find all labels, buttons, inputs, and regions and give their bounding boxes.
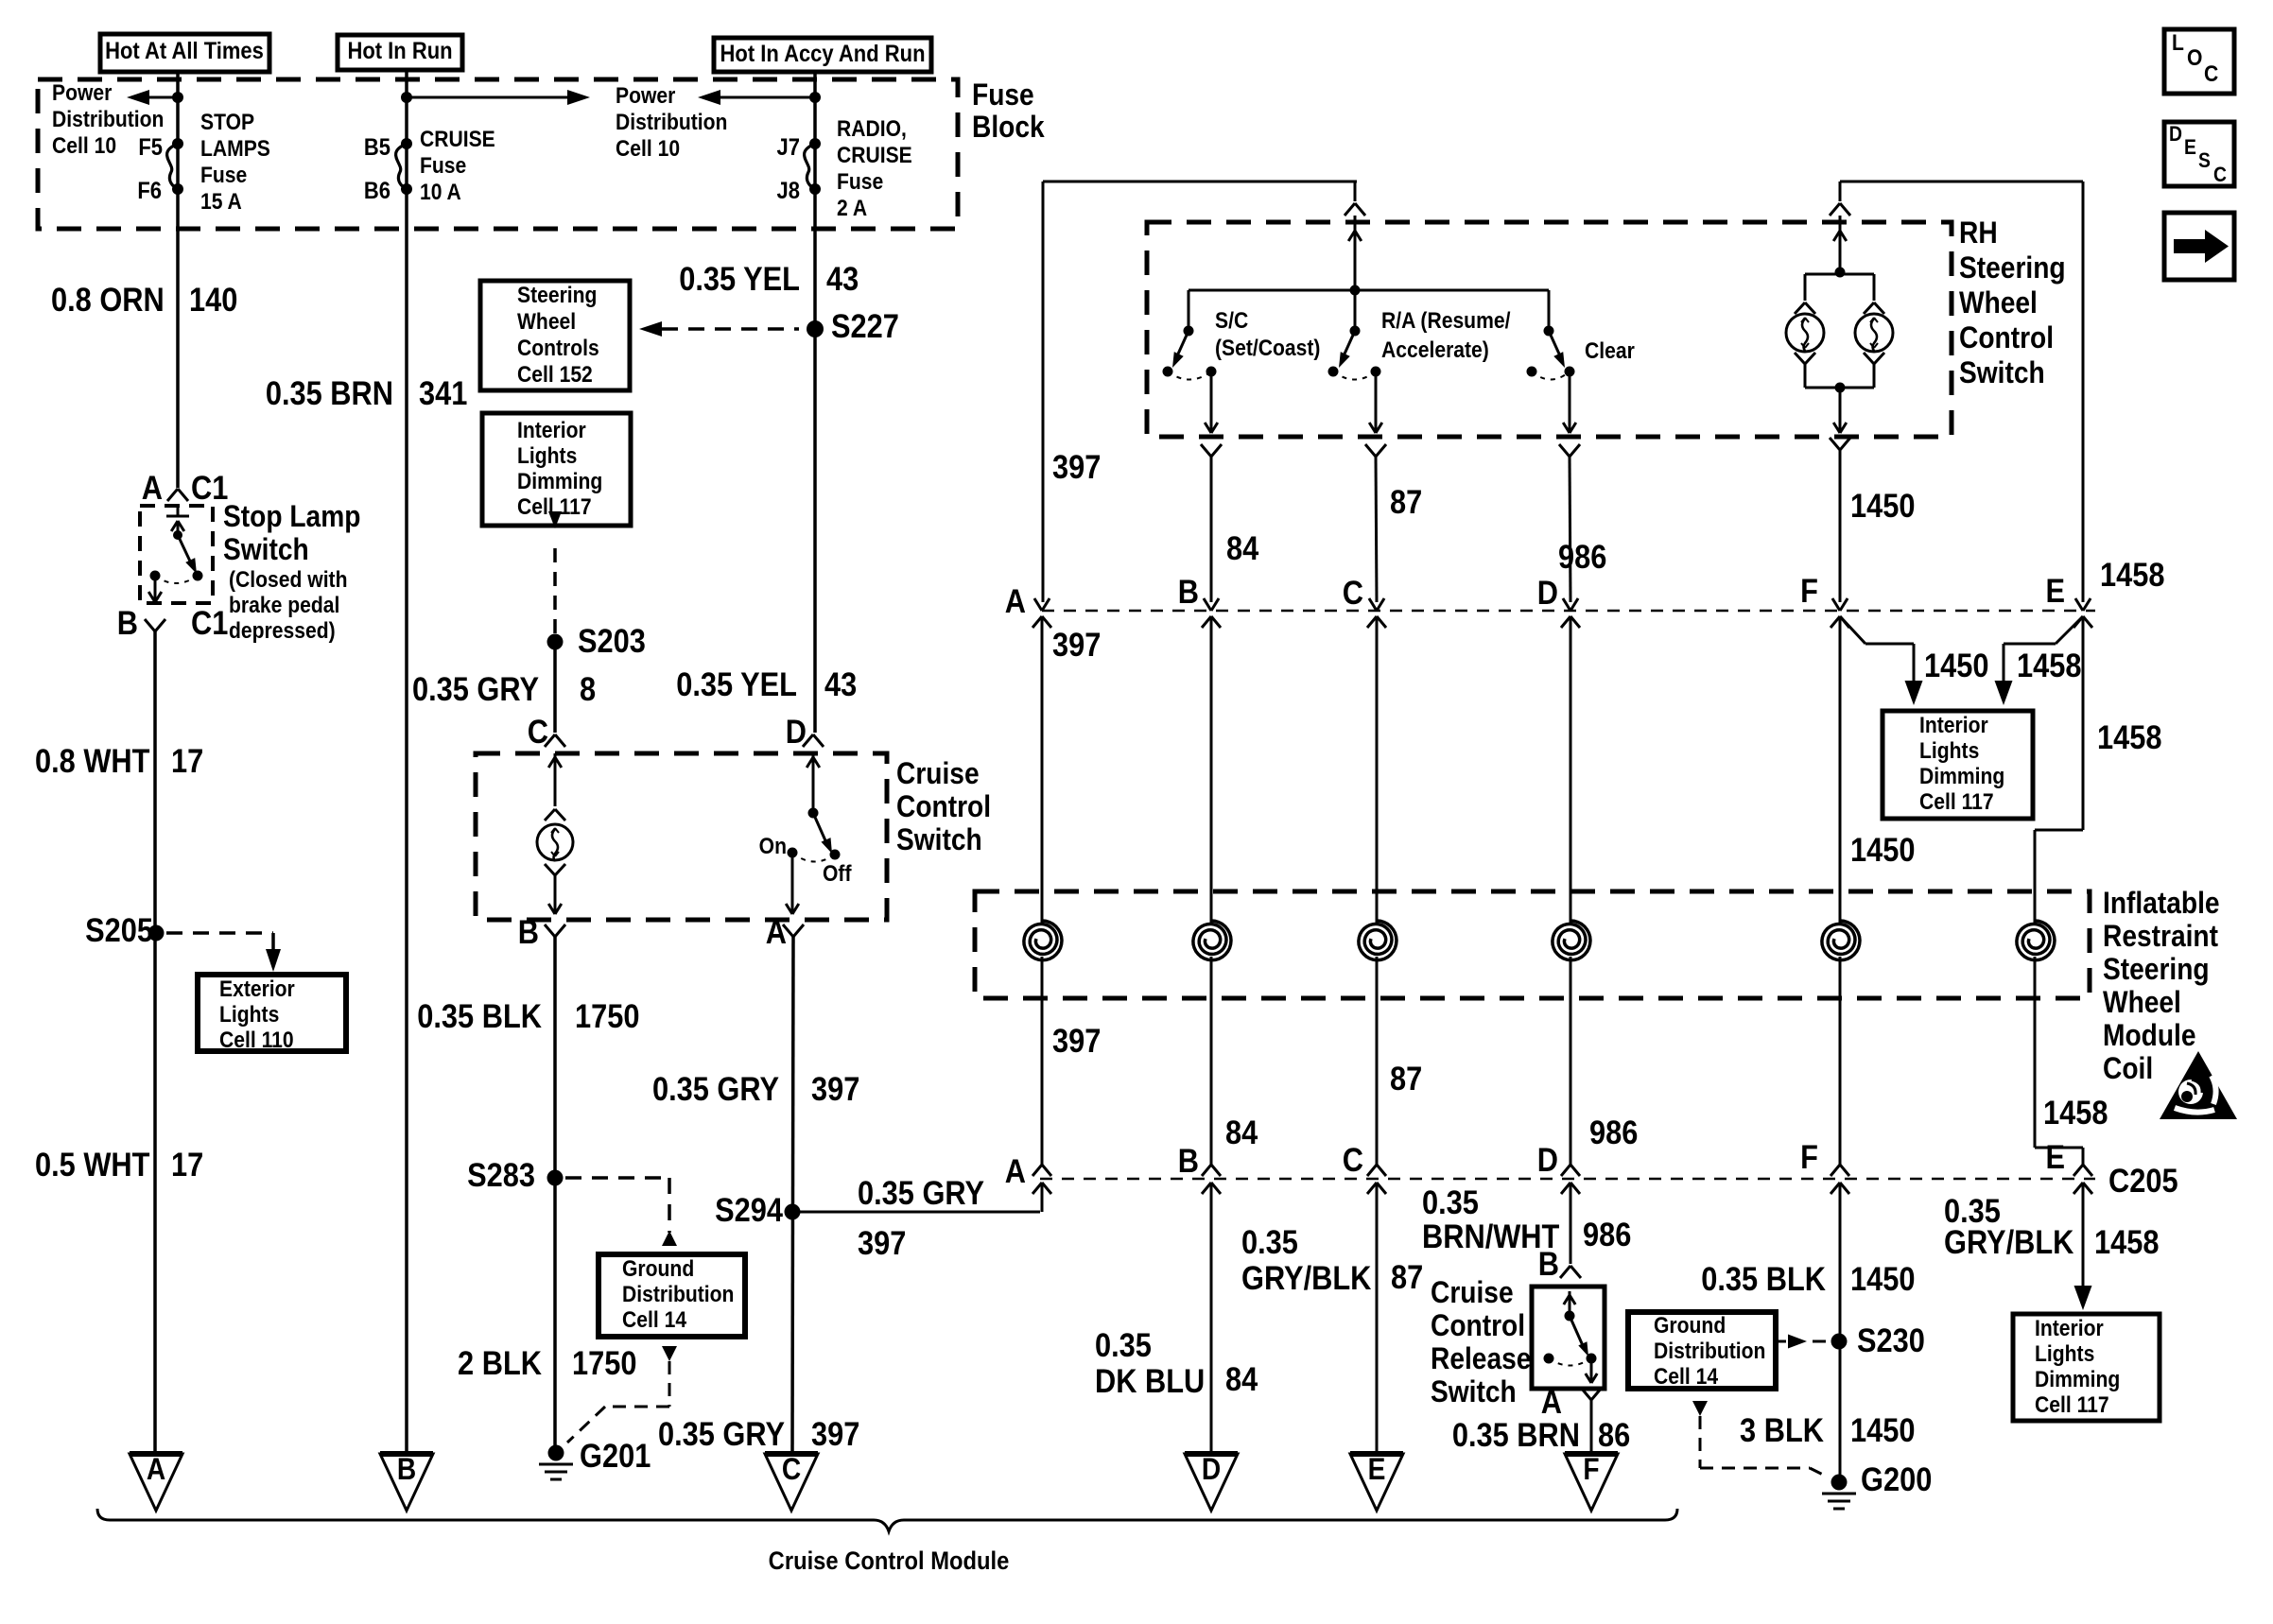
svg-text:86: 86	[1598, 1416, 1630, 1453]
svg-text:Cruise Control Module: Cruise Control Module	[769, 1547, 1010, 1576]
svg-text:C205: C205	[2108, 1162, 2178, 1199]
svg-text:Accelerate): Accelerate)	[1381, 337, 1489, 363]
svg-text:Power: Power	[616, 83, 676, 109]
svg-text:Fuse: Fuse	[200, 163, 247, 188]
svg-text:1458: 1458	[2100, 556, 2164, 593]
svg-text:Hot At All Times: Hot At All Times	[105, 38, 264, 64]
svg-text:43: 43	[826, 260, 859, 297]
svg-text:Dimming: Dimming	[2035, 1367, 2120, 1392]
svg-text:GRY/BLK: GRY/BLK	[1241, 1259, 1372, 1296]
svg-text:depressed): depressed)	[229, 618, 336, 644]
svg-text:Off: Off	[823, 861, 852, 887]
svg-text:Cell 117: Cell 117	[1919, 789, 1994, 815]
svg-text:397: 397	[811, 1070, 859, 1107]
svg-text:A: A	[147, 1453, 165, 1486]
svg-text:Module: Module	[2103, 1019, 2196, 1052]
svg-text:1450: 1450	[1924, 647, 1988, 683]
svg-text:C: C	[1343, 1141, 1363, 1178]
svg-text:Steering: Steering	[2103, 953, 2210, 986]
svg-text:Cell 14: Cell 14	[1654, 1364, 1718, 1390]
svg-text:17: 17	[171, 742, 203, 779]
svg-text:C: C	[2213, 164, 2227, 186]
svg-text:J7: J7	[777, 134, 800, 161]
svg-text:Block: Block	[972, 111, 1045, 144]
svg-text:RH: RH	[1959, 216, 1998, 250]
svg-text:Interior: Interior	[2035, 1316, 2104, 1341]
svg-text:Release: Release	[1431, 1342, 1531, 1375]
svg-text:B6: B6	[364, 178, 390, 204]
svg-text:Ground: Ground	[1654, 1313, 1726, 1339]
svg-text:397: 397	[1052, 1022, 1101, 1059]
svg-text:84: 84	[1225, 1360, 1258, 1397]
svg-text:Cell 152: Cell 152	[517, 362, 593, 388]
svg-text:S: S	[2198, 149, 2211, 172]
svg-text:Dimming: Dimming	[1919, 764, 2004, 789]
svg-text:(Closed with: (Closed with	[229, 567, 347, 593]
svg-text:Control: Control	[896, 790, 991, 823]
svg-text:E: E	[2184, 136, 2196, 159]
svg-text:Stop Lamp: Stop Lamp	[223, 500, 360, 533]
svg-text:A: A	[766, 913, 787, 950]
svg-text:1458: 1458	[2043, 1094, 2108, 1131]
svg-text:Cell 110: Cell 110	[219, 1028, 294, 1053]
svg-text:C: C	[782, 1453, 801, 1486]
svg-text:1750: 1750	[572, 1344, 636, 1381]
svg-text:B: B	[397, 1453, 416, 1486]
svg-text:S227: S227	[831, 307, 899, 344]
svg-text:S205: S205	[85, 911, 153, 948]
svg-text:C: C	[1343, 574, 1363, 611]
svg-text:(Set/Coast): (Set/Coast)	[1215, 336, 1320, 361]
svg-text:84: 84	[1225, 1114, 1258, 1150]
svg-text:CRUISE: CRUISE	[837, 143, 912, 168]
svg-text:E: E	[2045, 572, 2065, 609]
svg-text:D: D	[2169, 123, 2182, 146]
svg-text:Restraint: Restraint	[2103, 920, 2218, 953]
svg-text:E: E	[1368, 1453, 1386, 1486]
svg-text:F: F	[1800, 572, 1818, 609]
svg-text:On: On	[759, 834, 787, 859]
svg-text:brake pedal: brake pedal	[229, 593, 339, 618]
svg-text:LAMPS: LAMPS	[200, 136, 270, 162]
svg-text:986: 986	[1583, 1216, 1631, 1253]
svg-text:O: O	[2187, 45, 2202, 71]
svg-text:1450: 1450	[1850, 1260, 1915, 1297]
svg-text:Cell 117: Cell 117	[2035, 1392, 2109, 1418]
svg-text:1450: 1450	[1850, 831, 1915, 868]
svg-text:Cruise: Cruise	[896, 757, 980, 790]
svg-text:Interior: Interior	[1919, 713, 1988, 738]
svg-text:D: D	[1537, 1141, 1558, 1178]
svg-text:Ground: Ground	[622, 1256, 694, 1282]
svg-text:Exterior: Exterior	[219, 976, 295, 1002]
svg-text:0.35 YEL: 0.35 YEL	[676, 665, 797, 702]
svg-text:Coil: Coil	[2103, 1052, 2153, 1085]
svg-text:R/A (Resume/: R/A (Resume/	[1381, 308, 1511, 334]
svg-text:0.8 WHT: 0.8 WHT	[35, 742, 149, 779]
svg-text:STOP: STOP	[200, 110, 254, 135]
svg-text:Wheel: Wheel	[517, 309, 576, 335]
svg-text:Steering: Steering	[517, 283, 597, 308]
svg-text:E: E	[2045, 1138, 2065, 1175]
svg-text:Wheel: Wheel	[1959, 286, 2038, 320]
svg-text:0.35: 0.35	[1241, 1223, 1298, 1260]
svg-text:GRY/BLK: GRY/BLK	[1944, 1223, 2074, 1260]
svg-text:0.35 GRY: 0.35 GRY	[858, 1174, 984, 1211]
svg-text:0.35: 0.35	[1095, 1326, 1152, 1363]
svg-text:B: B	[1178, 1142, 1199, 1179]
svg-text:87: 87	[1390, 1060, 1422, 1097]
svg-text:87: 87	[1390, 483, 1422, 520]
svg-text:Control: Control	[1959, 321, 2054, 354]
svg-text:Inflatable: Inflatable	[2103, 887, 2220, 920]
svg-text:84: 84	[1226, 529, 1259, 566]
svg-text:S230: S230	[1857, 1322, 1925, 1358]
svg-text:A: A	[1005, 1152, 1026, 1189]
svg-text:B: B	[1538, 1245, 1559, 1282]
svg-text:B: B	[117, 604, 138, 641]
svg-text:C: C	[2204, 61, 2218, 87]
svg-text:0.35 GRY: 0.35 GRY	[412, 670, 539, 707]
svg-text:Dimming: Dimming	[517, 469, 602, 494]
svg-text:0.35 BRN: 0.35 BRN	[1452, 1416, 1580, 1453]
svg-text:2 BLK: 2 BLK	[458, 1344, 542, 1381]
svg-text:Hot In Accy And Run: Hot In Accy And Run	[720, 41, 926, 67]
svg-text:10 A: 10 A	[420, 180, 461, 205]
svg-text:J8: J8	[777, 178, 800, 204]
svg-text:1750: 1750	[575, 997, 639, 1034]
svg-text:0.35 GRY: 0.35 GRY	[652, 1070, 779, 1107]
svg-text:0.8 ORN: 0.8 ORN	[51, 281, 165, 318]
svg-text:Lights: Lights	[517, 443, 577, 469]
svg-text:87: 87	[1391, 1258, 1423, 1295]
svg-text:8: 8	[580, 670, 596, 707]
svg-text:341: 341	[419, 374, 467, 411]
svg-text:A: A	[142, 469, 163, 506]
svg-text:Fuse: Fuse	[420, 153, 466, 179]
svg-text:F6: F6	[137, 178, 162, 204]
svg-text:Switch: Switch	[1959, 356, 2045, 389]
svg-text:DK BLU: DK BLU	[1095, 1362, 1205, 1399]
svg-text:0.35 GRY: 0.35 GRY	[658, 1415, 785, 1452]
svg-text:CRUISE: CRUISE	[420, 127, 495, 152]
svg-text:Switch: Switch	[223, 533, 309, 566]
svg-text:Clear: Clear	[1585, 338, 1635, 364]
svg-text:G201: G201	[580, 1437, 651, 1474]
svg-text:RADIO,: RADIO,	[837, 116, 907, 142]
svg-text:Distribution: Distribution	[52, 107, 164, 132]
svg-text:Cell 10: Cell 10	[616, 136, 680, 162]
svg-text:Wheel: Wheel	[2103, 986, 2181, 1019]
svg-text:S203: S203	[578, 622, 646, 659]
svg-text:Interior: Interior	[517, 418, 586, 443]
svg-text:397: 397	[858, 1224, 906, 1261]
svg-text:0.35 BLK: 0.35 BLK	[1701, 1260, 1826, 1297]
svg-text:Control: Control	[1431, 1309, 1525, 1342]
svg-text:L: L	[2172, 30, 2184, 56]
svg-text:Switch: Switch	[1431, 1375, 1517, 1408]
svg-text:Steering: Steering	[1959, 251, 2066, 285]
svg-text:17: 17	[171, 1146, 203, 1183]
svg-text:D: D	[1202, 1453, 1221, 1486]
svg-text:140: 140	[189, 281, 237, 318]
svg-text:3 BLK: 3 BLK	[1740, 1411, 1824, 1448]
svg-text:0.35 BRN: 0.35 BRN	[266, 374, 393, 411]
svg-text:Distribution: Distribution	[616, 110, 727, 135]
svg-text:B: B	[518, 913, 539, 950]
svg-text:1458: 1458	[2017, 647, 2081, 683]
svg-text:G200: G200	[1861, 1460, 1932, 1497]
svg-text:Switch: Switch	[896, 823, 982, 856]
svg-text:Cell 10: Cell 10	[52, 133, 116, 159]
svg-text:986: 986	[1558, 538, 1606, 575]
svg-text:1458: 1458	[2097, 718, 2161, 755]
svg-text:B5: B5	[364, 134, 390, 161]
svg-text:A: A	[1541, 1383, 1562, 1420]
svg-text:Cell 14: Cell 14	[622, 1307, 686, 1333]
svg-text:A: A	[1005, 582, 1026, 619]
svg-text:S283: S283	[467, 1156, 535, 1193]
svg-text:1458: 1458	[2094, 1223, 2159, 1260]
svg-text:Cruise: Cruise	[1431, 1276, 1514, 1309]
svg-text:2 A: 2 A	[837, 196, 867, 221]
svg-text:Controls: Controls	[517, 336, 599, 361]
svg-text:397: 397	[1052, 626, 1101, 663]
svg-text:S/C: S/C	[1215, 308, 1248, 334]
svg-text:0.35: 0.35	[1422, 1183, 1479, 1220]
svg-text:Distribution: Distribution	[622, 1282, 734, 1307]
svg-text:15 A: 15 A	[200, 189, 242, 215]
svg-text:Hot In Run: Hot In Run	[347, 38, 452, 64]
svg-text:397: 397	[811, 1415, 859, 1452]
svg-text:F5: F5	[138, 134, 163, 161]
svg-text:Fuse: Fuse	[837, 169, 883, 195]
svg-text:F: F	[1583, 1453, 1599, 1486]
svg-text:Lights: Lights	[1919, 738, 1979, 764]
svg-text:Lights: Lights	[219, 1002, 279, 1028]
svg-text:1450: 1450	[1850, 487, 1915, 524]
svg-text:Power: Power	[52, 80, 113, 106]
svg-text:S294: S294	[715, 1191, 784, 1228]
svg-text:0.35 BLK: 0.35 BLK	[417, 997, 542, 1034]
svg-text:C1: C1	[191, 604, 228, 641]
svg-text:0.5 WHT: 0.5 WHT	[35, 1146, 149, 1183]
svg-text:B: B	[1178, 573, 1199, 610]
svg-text:397: 397	[1052, 448, 1101, 485]
svg-text:Fuse: Fuse	[972, 78, 1034, 112]
svg-text:43: 43	[824, 665, 857, 702]
svg-text:986: 986	[1589, 1114, 1638, 1150]
svg-text:F: F	[1800, 1138, 1818, 1175]
svg-text:1450: 1450	[1850, 1411, 1915, 1448]
svg-text:Distribution: Distribution	[1654, 1339, 1765, 1364]
svg-text:0.35 YEL: 0.35 YEL	[679, 260, 800, 297]
svg-text:D: D	[1537, 574, 1558, 611]
svg-text:Lights: Lights	[2035, 1341, 2094, 1367]
